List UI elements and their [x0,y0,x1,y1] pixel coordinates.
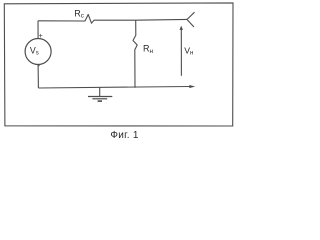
svg-text:Фиг. 1: Фиг. 1 [110,130,138,140]
svg-text:+: + [39,33,43,40]
